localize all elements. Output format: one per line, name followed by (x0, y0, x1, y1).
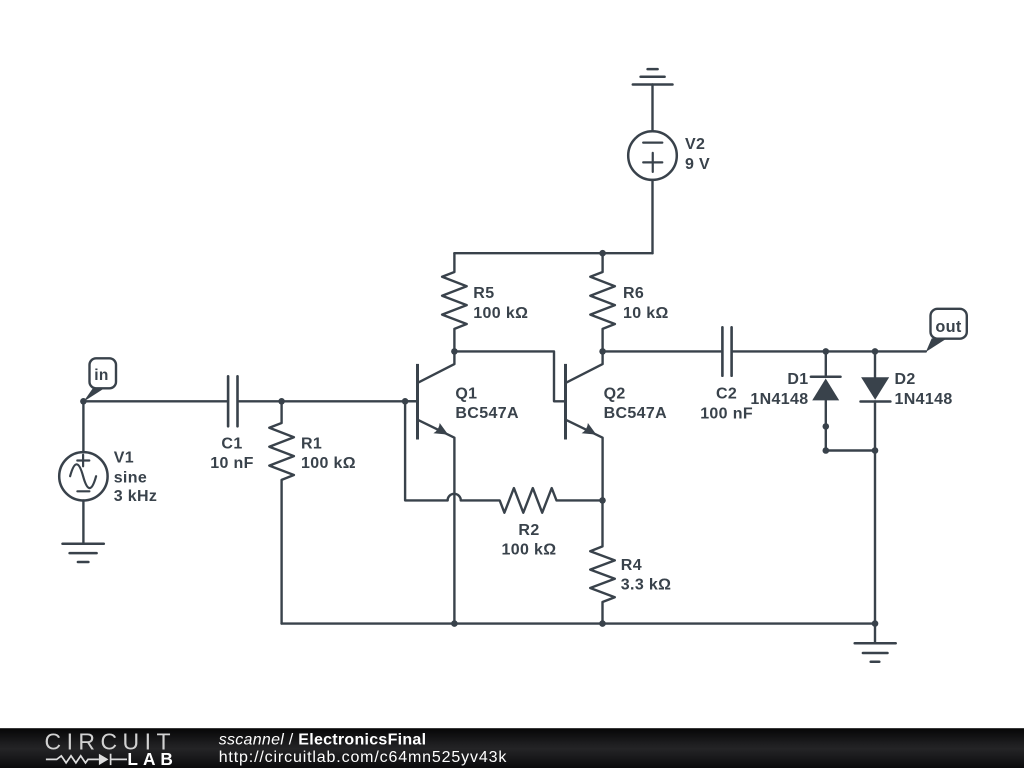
svg-text:in: in (94, 367, 108, 384)
svg-text:R1: R1 (301, 435, 322, 452)
svg-text:V2: V2 (685, 136, 705, 153)
svg-text:1N4148: 1N4148 (750, 391, 808, 408)
svg-text:Q1: Q1 (455, 385, 477, 402)
svg-text:D2: D2 (895, 371, 916, 388)
svg-text:3.3 kΩ: 3.3 kΩ (621, 577, 672, 594)
svg-text:out: out (935, 318, 962, 336)
svg-text:V1: V1 (114, 449, 134, 466)
svg-text:R5: R5 (473, 285, 494, 302)
svg-text:1N4148: 1N4148 (895, 391, 953, 408)
svg-text:D1: D1 (787, 371, 808, 388)
svg-text:C1: C1 (221, 436, 242, 453)
svg-text:100 kΩ: 100 kΩ (301, 455, 356, 472)
svg-text:sscannel / ElectronicsFinal: sscannel / ElectronicsFinal (219, 731, 427, 748)
svg-text:BC547A: BC547A (604, 405, 668, 422)
svg-text:C2: C2 (716, 386, 737, 403)
svg-text:sine: sine (114, 469, 147, 486)
svg-text:LAB: LAB (127, 749, 172, 768)
svg-text:100 nF: 100 nF (700, 405, 753, 422)
svg-text:R4: R4 (621, 557, 642, 574)
svg-text:Q2: Q2 (604, 385, 626, 402)
svg-text:10 kΩ: 10 kΩ (623, 305, 669, 322)
svg-text:R2: R2 (518, 522, 539, 539)
svg-text:9 V: 9 V (685, 156, 710, 173)
svg-text:BC547A: BC547A (455, 405, 519, 422)
svg-text:R6: R6 (623, 285, 644, 302)
svg-text:100 kΩ: 100 kΩ (473, 305, 528, 322)
svg-text:3 kHz: 3 kHz (114, 488, 158, 505)
svg-text:10 nF: 10 nF (210, 455, 254, 472)
svg-text:100 kΩ: 100 kΩ (502, 542, 557, 559)
svg-text:http://circuitlab.com/c64mn525: http://circuitlab.com/c64mn525yv43k (219, 749, 508, 766)
